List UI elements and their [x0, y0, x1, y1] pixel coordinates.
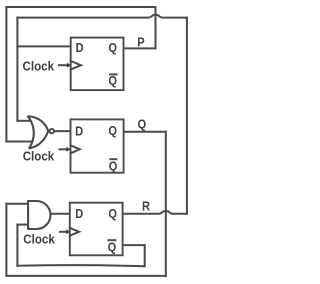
- D flip-flop FF2 box: [71, 119, 124, 172]
- wire clock1 arrow: [59, 64, 67, 66]
- wire Q2 output to corner (net Q): [124, 131, 166, 133]
- svg-text:D: D: [76, 40, 84, 55]
- svg-text:Q: Q: [108, 239, 117, 254]
- wire NOR output to D2: [54, 130, 70, 132]
- svg-text:Clock: Clock: [23, 232, 55, 247]
- wire bottom outer horizontal: [6, 275, 165, 277]
- wire top inner horizontal with hop over P vertical: [17, 15, 187, 18]
- svg-text:Q: Q: [108, 206, 117, 221]
- D flip-flop FF1 box: [71, 38, 124, 91]
- AND gate U2: [28, 201, 50, 229]
- wire vertical down (net Q): [165, 132, 167, 276]
- svg-text:Q: Q: [138, 116, 147, 131]
- svg-text:Q: Q: [108, 123, 117, 138]
- svg-text:P: P: [137, 35, 145, 50]
- D flip-flop FF3 box: [70, 203, 123, 256]
- FF3 clock edge triangle: [70, 228, 79, 236]
- wire Q3-bar output (net Qbar3): [123, 244, 145, 246]
- wire left lower vertical up (net Q): [5, 204, 7, 276]
- svg-text:Clock: Clock: [23, 148, 55, 163]
- NOR output bubble: [50, 129, 54, 133]
- wire clock2 arrow: [60, 148, 67, 150]
- wire vertical down from Q3-bar: [144, 245, 146, 266]
- wire AND output to D3: [51, 213, 70, 215]
- FF2 clock edge triangle: [71, 145, 80, 153]
- svg-text:R: R: [142, 198, 151, 213]
- wire left lower-inner vertical up: [16, 225, 18, 266]
- svg-text:Clock: Clock: [23, 58, 55, 73]
- wire NOR lower input: [6, 141, 31, 143]
- wire NOR upper input: [17, 120, 30, 122]
- FF1 clock edge triangle: [71, 61, 81, 69]
- wire bottom inner horizontal: [17, 265, 144, 266]
- svg-text:Q: Q: [108, 40, 117, 55]
- wire R output with hop over Q vertical: [123, 211, 187, 214]
- wire left outer vertical down: [5, 7, 7, 142]
- wire top outer horizontal: [6, 6, 155, 8]
- svg-text:Q: Q: [109, 158, 118, 173]
- svg-text:D: D: [75, 206, 83, 221]
- wire left inner vertical down (net R): [16, 18, 18, 121]
- wire AND lower input: [17, 224, 28, 226]
- wire clock3 arrow: [60, 231, 66, 233]
- NOR gate U1: [28, 116, 48, 148]
- wire right vertical up (net R): [186, 18, 188, 214]
- svg-text:D: D: [75, 124, 83, 139]
- wire Q1 output to corner (net P): [124, 47, 156, 49]
- wire AND upper input: [6, 203, 28, 205]
- wire vertical up from P wire: [155, 7, 157, 48]
- wire branch to D input of FF1: [17, 45, 70, 47]
